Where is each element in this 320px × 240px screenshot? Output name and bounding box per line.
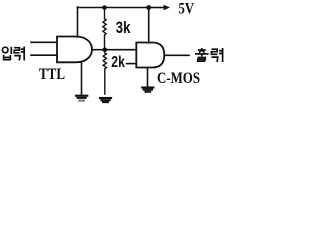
glyph 출 bbox=[201, 48, 203, 49]
resistor R2 2k (pull-down) bbox=[103, 50, 106, 94]
label: output 출력 (Korean) bbox=[195, 48, 223, 62]
svg-text:2k: 2k bbox=[111, 54, 125, 71]
wire: C-MOS gate ground lead bbox=[147, 68, 149, 87]
ground: below 2k resistor bbox=[100, 98, 111, 102]
junction dot: node V1 (TTL output / divider tap) bbox=[103, 47, 108, 52]
wire: 5V supply rail bbox=[78, 7, 151, 9]
junction dot: rail / C-MOS Vcc drop bbox=[146, 5, 151, 10]
wire: TTL input B bbox=[31, 54, 57, 56]
wire: TTL gate ground lead bbox=[81, 62, 83, 94]
gate U2: C-MOS bbox=[136, 43, 164, 68]
svg-text:C-MOS: C-MOS bbox=[157, 70, 200, 87]
wire: rail drop to C-MOS gate Vcc bbox=[148, 8, 150, 44]
wire: TTL input A bbox=[31, 41, 57, 43]
resistor R1 3k (pull-up) bbox=[103, 8, 106, 50]
junction dot: rail / 3k resistor bbox=[102, 5, 107, 10]
label: input 입력 (Korean) bbox=[2, 47, 24, 61]
gate U1: TTL NAND bbox=[57, 37, 92, 63]
wire: node V1 from TTL output to C-MOS input bbox=[92, 49, 136, 51]
svg-text:3k: 3k bbox=[116, 18, 131, 37]
ground: below TTL gate bbox=[76, 96, 87, 101]
svg-text:TTL: TTL bbox=[39, 66, 65, 83]
wire: output bbox=[164, 54, 189, 56]
svg-text:5V: 5V bbox=[179, 1, 195, 18]
arrow to 5V supply bbox=[150, 7, 164, 9]
ground: below C-MOS gate bbox=[142, 88, 153, 92]
glyph 입 bbox=[2, 47, 8, 53]
glyph 력 bbox=[14, 48, 19, 53]
glyph 력 bbox=[212, 49, 218, 54]
wire: C-MOS lower input stub bbox=[127, 63, 137, 65]
wire: rail drop to TTL gate Vcc bbox=[77, 7, 79, 37]
